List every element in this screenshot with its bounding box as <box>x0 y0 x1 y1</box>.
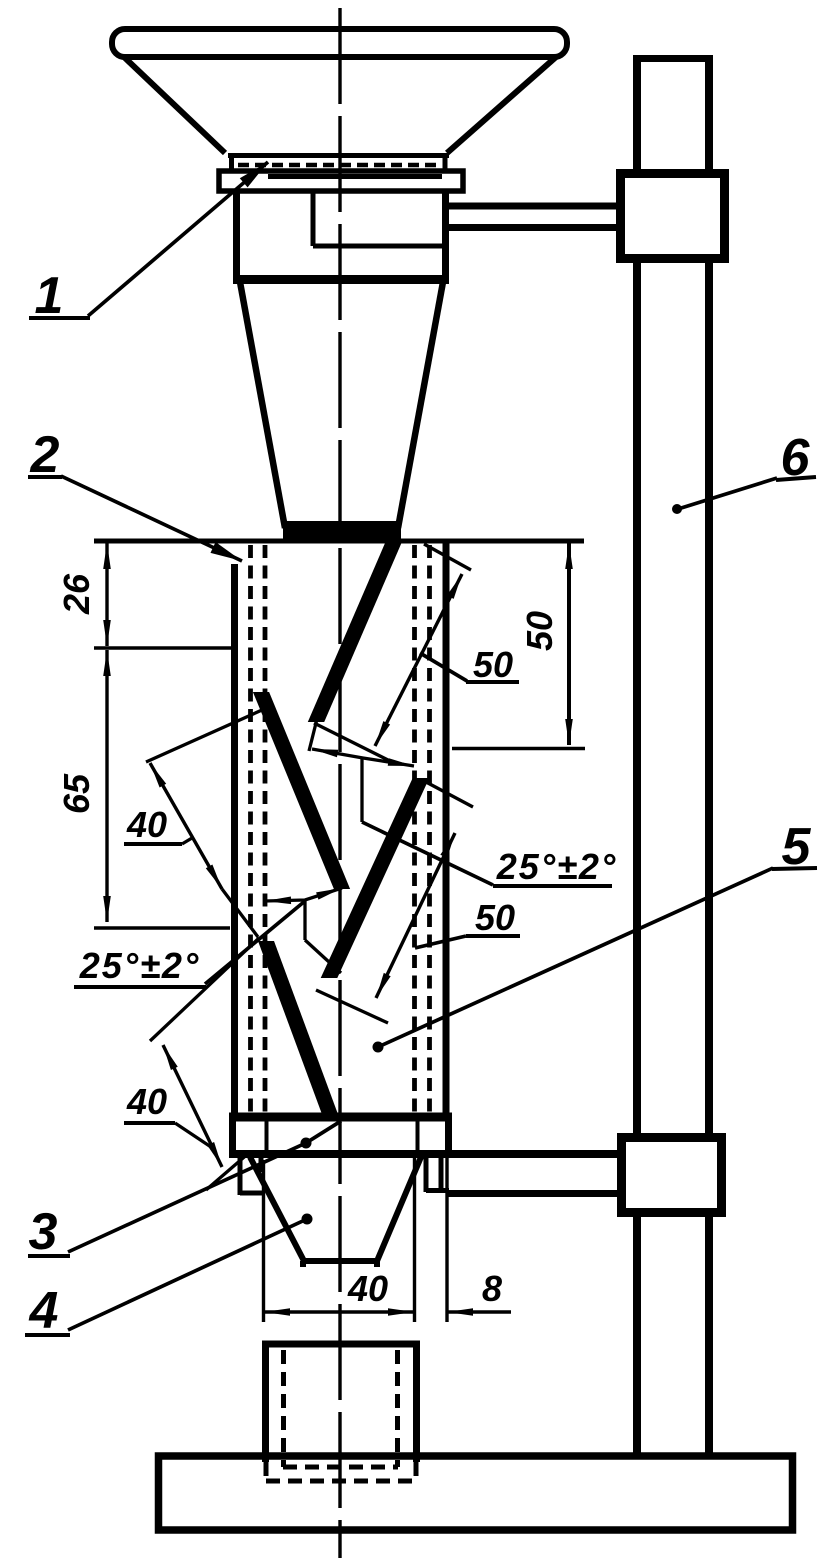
dimension 50 vertical right <box>452 543 585 749</box>
svg-text:40: 40 <box>347 1268 388 1309</box>
funnel collar <box>219 171 463 191</box>
svg-text:50: 50 <box>519 611 560 651</box>
svg-text:40: 40 <box>126 804 167 845</box>
receiving cup <box>262 1344 420 1462</box>
svg-text:1: 1 <box>35 267 64 325</box>
funnel lower cone <box>240 282 443 528</box>
bottom cone right bracket <box>426 1157 449 1192</box>
dimension 65 <box>94 650 230 928</box>
svg-text:25°±2°: 25°±2° <box>496 846 618 887</box>
baffle 2 <box>253 692 350 889</box>
stand column <box>633 58 713 1455</box>
bottom cone <box>250 1157 421 1267</box>
base plate <box>159 1456 793 1530</box>
svg-text:4: 4 <box>29 1282 59 1340</box>
svg-text:40: 40 <box>126 1081 167 1122</box>
upper clamp <box>621 174 725 259</box>
tube inner dashed walls <box>251 545 430 1113</box>
svg-text:2: 2 <box>30 426 60 484</box>
tube outer walls <box>231 564 238 1113</box>
baffle 3 <box>321 778 430 978</box>
tube bottom flange <box>229 1117 452 1154</box>
funnel seam band <box>228 153 449 171</box>
dimension 8 bottom <box>447 1157 511 1322</box>
svg-text:3: 3 <box>29 1203 58 1261</box>
dimension 40 bottom <box>264 1157 415 1322</box>
dimension 50 diagonal lower (baffle 3 length) <box>316 782 520 1023</box>
label 2 leader <box>28 475 62 479</box>
svg-text:6: 6 <box>781 429 811 487</box>
funnel cone <box>124 57 556 153</box>
upper support rod <box>449 206 616 228</box>
dimension 40 diagonal upper (baffle 2 length) <box>124 710 262 937</box>
funnel neck outlet bar <box>283 521 401 539</box>
label 4 leader <box>25 1333 70 1337</box>
label 1 leader <box>29 316 90 320</box>
svg-text:26: 26 <box>56 573 97 615</box>
baffle 1 <box>308 539 403 722</box>
tube top line <box>94 539 584 544</box>
svg-text:50: 50 <box>475 897 515 938</box>
dimension 26 <box>94 543 231 648</box>
svg-text:8: 8 <box>482 1268 502 1309</box>
funnel rim <box>112 29 567 57</box>
angle dimension 25 baffle 1 <box>309 715 612 886</box>
dimension 50 diagonal upper (baffle 1 length) <box>314 544 519 761</box>
label 6 leader <box>776 477 816 480</box>
center axis line <box>338 8 341 1558</box>
svg-text:65: 65 <box>56 773 97 814</box>
svg-text:25°±2°: 25°±2° <box>79 945 201 986</box>
angle dimension 25 baffle 2 <box>74 888 342 987</box>
dimension 40 diagonal lower (baffle 4 length) <box>124 938 259 1190</box>
label 5 leader <box>772 868 817 869</box>
label 3 leader <box>28 1254 70 1258</box>
lower clamp <box>622 1138 722 1213</box>
lower support rod <box>452 1150 617 1158</box>
bottom cone left bracket <box>240 1157 262 1195</box>
funnel cylinder <box>237 191 446 280</box>
svg-text:5: 5 <box>782 818 812 876</box>
baffle 4 <box>258 941 339 1117</box>
svg-text:50: 50 <box>473 644 513 685</box>
